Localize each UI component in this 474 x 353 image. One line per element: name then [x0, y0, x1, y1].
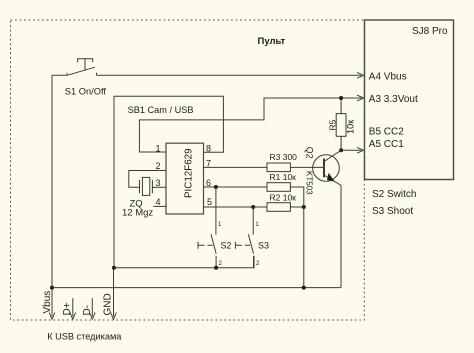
- svg-text:8: 8: [206, 144, 211, 154]
- wire 3.3V net: pin1 to A3: [139, 95, 363, 152]
- svg-text:Q2: Q2: [305, 147, 315, 159]
- resistor R1 10k: [267, 183, 290, 192]
- wire crystal to pin3: [152, 186, 166, 188]
- svg-text:A4 Vbus: A4 Vbus: [369, 72, 407, 83]
- wire R junction down to bottom rail: [303, 207, 305, 288]
- wire pin6 to R1: [204, 186, 268, 188]
- dashed enclosure border (remote unit): [11, 20, 365, 320]
- node R1/R2 junction: [302, 205, 306, 209]
- block U2 SJ8 Pro: [365, 20, 454, 180]
- wire D- stub arrow: [90, 298, 96, 319]
- wire pin2 to crystal: [129, 171, 166, 188]
- crystal ZQ 12MHz: [140, 180, 153, 193]
- node bottom rail junction: [302, 286, 306, 290]
- node Vbus junction: [50, 286, 54, 290]
- svg-text:1: 1: [156, 144, 161, 154]
- svg-text:SJ8 Pro: SJ8 Pro: [412, 26, 448, 37]
- svg-text:R5: R5: [328, 119, 338, 130]
- emitter arrowhead: [327, 173, 335, 182]
- node GND rail junction: [112, 266, 116, 270]
- node R5/collector/A5 junction: [339, 148, 343, 152]
- wire S1 to A4 Vbus: [97, 72, 364, 78]
- svg-text:SB1 Cam / USB: SB1 Cam / USB: [128, 105, 194, 115]
- chip U1 PIC12F629: [166, 143, 204, 214]
- transistor Q2 KT503: [313, 155, 340, 182]
- node S2 bottom junction: [214, 266, 218, 270]
- svg-text:GND: GND: [102, 293, 113, 315]
- wire pin5 to R2: [204, 206, 268, 208]
- resistor R2 10k: [267, 203, 290, 212]
- switch S3: [235, 207, 253, 268]
- wire switches bottom rail: [114, 256, 254, 268]
- wire Vbus bottom arrow to USB: [49, 288, 55, 320]
- switch S2: [198, 187, 216, 268]
- wire R2 right to junction: [290, 206, 303, 208]
- wire D+ stub arrow: [70, 298, 76, 319]
- wire Vbus left vertical: [51, 75, 53, 287]
- svg-text:D+: D+: [62, 302, 73, 315]
- svg-text:S1 On/Off: S1 On/Off: [65, 87, 107, 97]
- svg-text:B5 CC2: B5 CC2: [369, 127, 404, 138]
- svg-text:R1 10к: R1 10к: [270, 172, 297, 182]
- wire R1 right bend down: [290, 187, 303, 207]
- svg-text:7: 7: [206, 159, 211, 169]
- svg-text:10к: 10к: [346, 119, 356, 134]
- svg-text:KT503: KT503: [305, 171, 314, 195]
- wire pin7 to R3: [204, 166, 268, 168]
- svg-text:Vbus: Vbus: [42, 291, 53, 314]
- svg-text:S3 Shoot: S3 Shoot: [372, 206, 413, 217]
- resistor R3 300: [267, 163, 290, 172]
- wire to A5 CC1 arrow: [341, 147, 364, 153]
- svg-text:S2 Switch: S2 Switch: [372, 189, 416, 200]
- svg-text:3: 3: [156, 178, 161, 188]
- wire GND drop to USB arrow: [111, 268, 117, 320]
- svg-text:S3: S3: [258, 241, 269, 251]
- svg-text:R3 300: R3 300: [270, 152, 298, 162]
- wire GND frame: SB1 outline left+top, down to pin8: [114, 96, 223, 268]
- switch S1 On/Off: [52, 59, 97, 76]
- node pin5/S3 junction: [251, 205, 255, 209]
- resistor R5 10k (vertical): [340, 98, 342, 114]
- svg-text:5: 5: [207, 197, 212, 207]
- wire emitter down to rail: [340, 185, 342, 287]
- svg-text:12 Mgz: 12 Mgz: [122, 208, 153, 219]
- svg-text:4: 4: [156, 197, 161, 207]
- svg-text:6: 6: [206, 178, 211, 188]
- wire pin4 stub: [153, 205, 166, 207]
- wire R3 to base Q2: [290, 166, 323, 168]
- svg-text:R2 10к: R2 10к: [270, 193, 297, 203]
- wire Vbus bottom rail to emitter: [52, 287, 341, 289]
- svg-text:Пульт: Пульт: [258, 36, 286, 47]
- svg-text:PIC12F629: PIC12F629: [184, 148, 195, 198]
- svg-text:К USB стедикама: К USB стедикама: [47, 332, 122, 342]
- svg-text:2: 2: [156, 161, 161, 171]
- svg-text:D-: D-: [82, 305, 93, 316]
- svg-text:S2: S2: [220, 241, 231, 251]
- svg-text:A5 CC1: A5 CC1: [369, 139, 404, 150]
- node pin6/S2 junction: [214, 185, 218, 189]
- node A3/R5 junction: [339, 96, 343, 100]
- svg-text:A3 3.3Vout: A3 3.3Vout: [369, 94, 418, 105]
